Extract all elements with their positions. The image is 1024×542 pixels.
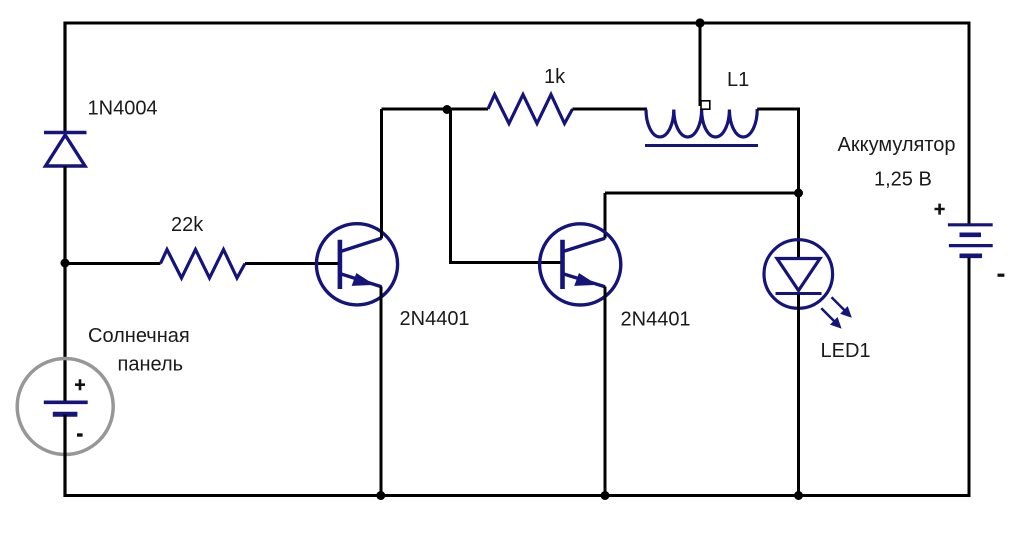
svg-text:2N4401: 2N4401 (400, 308, 470, 330)
node junction left rail / 22k base wire (61, 259, 70, 268)
wire left rail upper (to diode cathode) (63, 22, 66, 133)
battery BT1 (948, 225, 993, 256)
svg-text:1,25 В: 1,25 В (874, 169, 932, 191)
wire bottom rail (65, 494, 971, 497)
wire Q1 emitter drop (380, 287, 383, 496)
inductor L1 (645, 109, 758, 146)
svg-text:1k: 1k (544, 66, 566, 88)
wire tap riser from top rail (699, 23, 702, 106)
solar panel source PV1 (17, 359, 113, 455)
wire Q2 collector to LED node (605, 192, 799, 195)
wire right rail lower (battery to bottom rail) (968, 258, 971, 498)
wire mid rail to node A (382, 108, 489, 111)
wire Q2 collector riser (604, 193, 607, 239)
transistor Q2 2N4401 (540, 224, 621, 305)
node junction bottom LED (794, 491, 803, 500)
label battery plus (935, 204, 945, 215)
LED D2 LED1 (764, 240, 851, 328)
label solar minus (77, 433, 83, 436)
wire Q1 collector riser (380, 109, 383, 239)
wire solar panel bottom drop (63, 415, 66, 498)
svg-text:22k: 22k (171, 214, 204, 236)
wire top rail (65, 22, 969, 25)
wire LED bottom drop (797, 295, 800, 496)
svg-text:Солнечная: Солнечная (88, 325, 190, 347)
wire inductor to LED drop (757, 109, 798, 259)
wire base Q1 right segment (245, 262, 342, 265)
wire left rail mid (diode anode to solar panel) (63, 166, 66, 402)
label battery minus (998, 274, 1005, 277)
svg-text:панель: панель (118, 354, 184, 376)
resistor R1 22k (161, 250, 246, 279)
resistor R2 1k (488, 95, 573, 124)
node junction top rail tap (695, 18, 704, 27)
svg-text:Аккумулятор: Аккумулятор (838, 134, 956, 156)
node A junction (443, 105, 452, 114)
svg-text:2N4401: 2N4401 (621, 309, 691, 331)
diode D1 1N4004 (44, 133, 87, 167)
node junction LED / collector (794, 189, 803, 198)
wire right rail upper (top rail to battery) (968, 22, 971, 224)
wire base Q1 left segment (65, 262, 161, 265)
wire Q2 emitter drop (604, 287, 607, 496)
node junction bottom Q2 emitter (601, 491, 610, 500)
svg-text:1N4004: 1N4004 (88, 98, 158, 120)
tap terminal square on L1 (701, 101, 710, 109)
svg-text:LED1: LED1 (821, 340, 871, 362)
wire node A down to Q2 base (451, 110, 564, 263)
label solar plus (75, 379, 85, 390)
transistor Q1 2N4401 (316, 224, 397, 305)
svg-text:L1: L1 (727, 69, 749, 91)
wire 1k to inductor (573, 108, 648, 111)
node junction bottom Q1 emitter (376, 491, 385, 500)
